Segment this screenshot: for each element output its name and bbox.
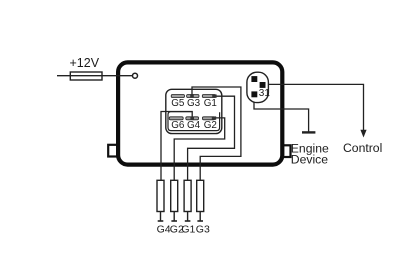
wire G2 pad to plug G2 [174, 118, 225, 181]
pin G5 [171, 95, 185, 109]
pin G1 [202, 95, 217, 109]
svg-text:G6: G6 [171, 120, 185, 131]
svg-text:31: 31 [259, 88, 271, 99]
wire G1 pad to plug G1 [188, 96, 235, 181]
ground [302, 131, 315, 133]
svg-text:G2: G2 [204, 120, 217, 131]
wire control [266, 84, 364, 130]
junction blob at pin G4 [190, 117, 194, 120]
glow plug G4 [157, 180, 171, 235]
svg-text:G5: G5 [171, 98, 185, 109]
pin G3 [187, 95, 201, 109]
mounting tab left [108, 145, 117, 157]
svg-text:G1: G1 [204, 98, 218, 109]
pin G6 [169, 117, 185, 131]
svg-text:G3: G3 [187, 98, 201, 109]
wire +12V feed [57, 75, 133, 77]
mounting tab right [283, 145, 291, 157]
svg-text:Control: Control [343, 141, 382, 155]
svg-text:G4: G4 [157, 223, 171, 235]
svg-text:G4: G4 [187, 120, 201, 131]
connector block outline [166, 89, 222, 133]
junction blob at pin G2 [212, 116, 216, 119]
glow plug G3 [196, 180, 210, 235]
glow plug G1 [181, 180, 195, 235]
fuse F1 [70, 72, 102, 80]
wire G4 pad to plug G4 [161, 112, 192, 182]
connector row2 outline [168, 112, 220, 131]
svg-text:+12V: +12V [70, 56, 100, 70]
junction blob at pin G3 [190, 94, 194, 97]
glow plug G2 [170, 180, 184, 235]
arrow control [360, 130, 366, 138]
pin G2 [202, 117, 216, 131]
junction blob at pin G1 [212, 94, 216, 97]
terminal node [133, 73, 138, 78]
svg-text:G1: G1 [181, 223, 195, 235]
wire to ground [254, 97, 309, 132]
pin G4 [186, 117, 201, 131]
svg-text:Device: Device [291, 152, 328, 166]
connector 31 [247, 72, 270, 102]
controller box [118, 62, 282, 164]
wire G3 pad to plug G3 [192, 87, 241, 181]
svg-text:G3: G3 [196, 223, 210, 235]
